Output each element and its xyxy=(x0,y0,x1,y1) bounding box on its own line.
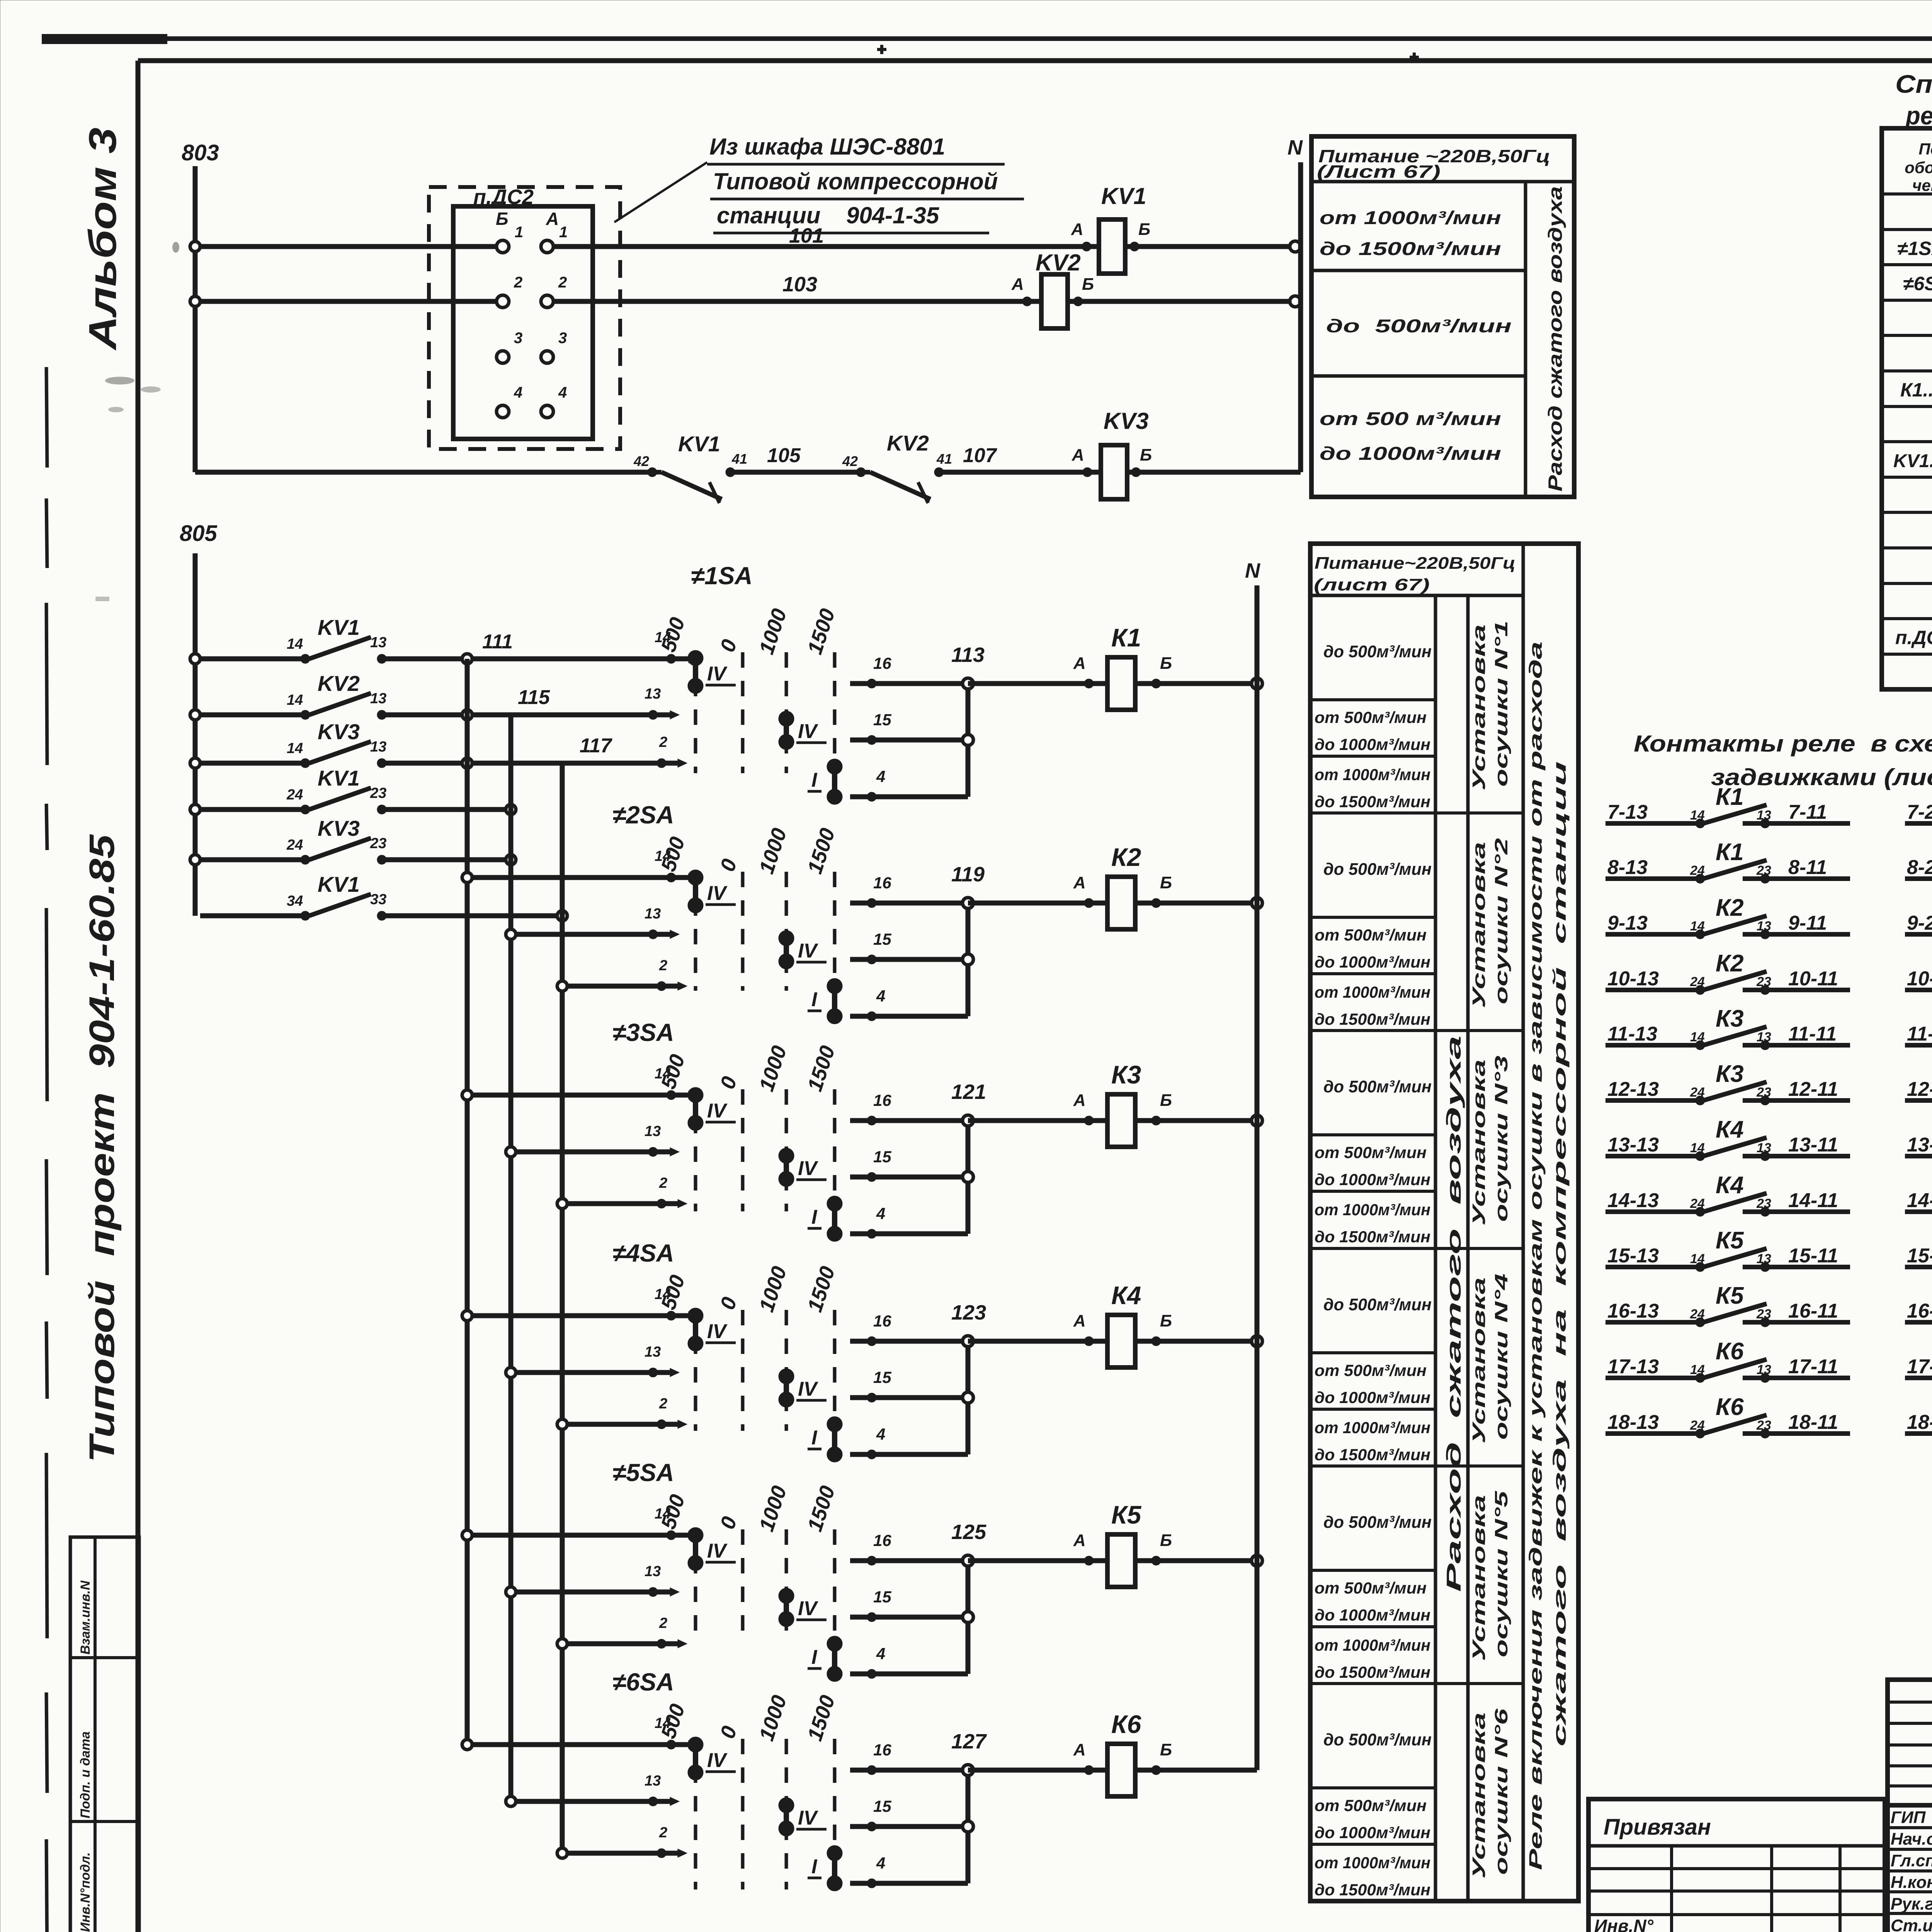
terminal A of K4 xyxy=(1073,1311,1094,1346)
table2 group 2 row lines xyxy=(1310,917,1523,1031)
svg-text:от 1000м³/мин: от 1000м³/мин xyxy=(1315,765,1430,784)
svg-text:К2: К2 xyxy=(1716,950,1744,977)
svg-text:16: 16 xyxy=(873,1312,891,1330)
svg-text:2: 2 xyxy=(659,1175,667,1191)
svg-text:Б: Б xyxy=(1160,1531,1172,1550)
svg-text:осушки N°6: осушки N°6 xyxy=(1491,1708,1511,1875)
bridge contact IV on 1000 line #5SA xyxy=(779,1588,827,1627)
bridge contact I on 1500 line #4SA xyxy=(808,1417,842,1462)
relay coil K3 xyxy=(1107,1060,1141,1147)
switch #1SA label xyxy=(691,562,753,590)
svg-text:13: 13 xyxy=(370,690,386,707)
svg-text:33: 33 xyxy=(370,891,386,908)
switch #5SA position line 1500 xyxy=(833,1529,837,1640)
wire 16 #2SA xyxy=(850,874,968,908)
svg-text:Расход сжатого воздуха: Расход сжатого воздуха xyxy=(1544,186,1566,492)
svg-text:А: А xyxy=(1073,654,1086,673)
svg-text:111: 111 xyxy=(482,631,513,653)
svg-text:14: 14 xyxy=(287,692,303,708)
svg-text:I: I xyxy=(811,988,818,1011)
contact K4 make 14-13/14-11 row xyxy=(1605,1172,1850,1216)
table2 g4 от500до1000 xyxy=(1315,1361,1430,1406)
svg-text:от 1000м³/мин: от 1000м³/мин xyxy=(1315,1201,1430,1219)
svg-text:16-13: 16-13 xyxy=(1607,1300,1659,1322)
svg-text:задвижками (лист: задвижками (лист xyxy=(1711,764,1932,790)
svg-text:IV: IV xyxy=(707,663,728,685)
svg-text:К3: К3 xyxy=(1111,1060,1141,1089)
label 1000 #2SA xyxy=(755,825,791,877)
svg-text:I: I xyxy=(811,769,818,791)
svg-text:9-11: 9-11 xyxy=(1788,912,1827,934)
switch #5SA label xyxy=(612,1459,674,1486)
spec row К1..К6 xyxy=(1900,379,1932,401)
wire 103 xyxy=(553,273,1041,301)
svg-text:7-13: 7-13 xyxy=(1607,801,1648,823)
svg-text:11-13: 11-13 xyxy=(1607,1023,1657,1045)
table2 g4 от1000до1500 xyxy=(1315,1418,1430,1464)
contact KV1 break 42-41 xyxy=(633,432,747,503)
svg-text:101: 101 xyxy=(789,224,824,247)
svg-text:24: 24 xyxy=(1690,1307,1705,1321)
label 0 #1SA xyxy=(716,637,741,655)
table2 rotated Установка осушки №1 xyxy=(1469,621,1511,791)
label 1000 #6SA xyxy=(755,1692,791,1744)
table2 g5 до500 xyxy=(1323,1513,1432,1532)
svg-text:2: 2 xyxy=(514,274,522,291)
svg-text:123: 123 xyxy=(951,1301,986,1324)
terminal A of KV2 xyxy=(1011,275,1032,306)
terminal Б of K1 xyxy=(1151,654,1172,688)
svg-text:Б: Б xyxy=(1160,1311,1172,1330)
table2 g1 от500до1000 xyxy=(1315,708,1430,753)
svg-text:от 500 м³/мин: от 500 м³/мин xyxy=(1320,409,1501,429)
relay coil K4 xyxy=(1107,1281,1141,1367)
contact K2 make 10-13/10-11 row xyxy=(1605,950,1850,995)
svg-text:Установка: Установка xyxy=(1469,1713,1489,1879)
junction bus K5 xyxy=(963,1555,973,1674)
margin stamp column xyxy=(70,1537,139,1932)
wire 103 to N xyxy=(1068,299,1295,304)
svg-text:К5: К5 xyxy=(1716,1282,1744,1309)
contact KV1 14-13 rung xyxy=(190,615,386,664)
svg-text:7-11: 7-11 xyxy=(1788,801,1827,823)
svg-text:К4: К4 xyxy=(1111,1281,1141,1310)
wire 16 #6SA xyxy=(850,1741,968,1775)
svg-text:125: 125 xyxy=(951,1520,986,1544)
table2 g1 от1000до1500 xyxy=(1315,765,1430,811)
switch #3SA position line 0 xyxy=(741,1089,745,1211)
contact K3 break 11-25/11-23 row xyxy=(1905,1004,1932,1068)
junction 803-101 xyxy=(190,241,200,252)
svg-text:24: 24 xyxy=(286,837,303,853)
svg-text:12-11: 12-11 xyxy=(1788,1078,1838,1100)
svg-text:41: 41 xyxy=(936,451,952,467)
svg-text:2: 2 xyxy=(558,274,567,291)
switch #3SA position line 1000 xyxy=(785,1089,788,1211)
switch #2SA label xyxy=(612,801,674,829)
label 500 #1SA xyxy=(656,614,689,655)
box Привязан xyxy=(1588,1799,1885,1932)
title block row Гл.спеч. xyxy=(1891,1851,1932,1870)
svg-text:15-25: 15-25 xyxy=(1907,1245,1932,1267)
terminal Б2 xyxy=(497,274,522,308)
svg-text:2: 2 xyxy=(659,734,667,750)
svg-text:15-13: 15-13 xyxy=(1607,1245,1659,1267)
svg-text:14: 14 xyxy=(287,740,303,757)
label 500 #4SA xyxy=(656,1272,689,1312)
contact K3 break 12-25/12-23 row xyxy=(1905,1059,1932,1123)
table2 g3 от500до1000 xyxy=(1315,1143,1430,1189)
svg-text:4: 4 xyxy=(558,384,567,401)
bridge contact IV on 1000 line #2SA xyxy=(779,930,827,969)
svg-text:4: 4 xyxy=(876,1854,885,1872)
wire 15 #5SA xyxy=(850,1588,968,1622)
wire 121 xyxy=(951,1080,1107,1121)
bridge contact I on 1500 line #5SA xyxy=(808,1636,842,1682)
wire 13 branch #3SA xyxy=(506,1123,679,1157)
table2 g5 от500до1000 xyxy=(1315,1579,1430,1624)
svg-text:Альбом 3: Альбом 3 xyxy=(81,128,124,351)
svg-text:Н.контр.: Н.контр. xyxy=(1891,1873,1932,1892)
svg-text:11-11: 11-11 xyxy=(1788,1023,1837,1045)
svg-text:до 1000м³/мин: до 1000м³/мин xyxy=(1315,1823,1430,1842)
svg-text:15: 15 xyxy=(873,1797,891,1815)
terminal А2 xyxy=(541,274,567,308)
svg-text:9-13: 9-13 xyxy=(1607,912,1648,934)
svg-text:Питание~220В,50Гц: Питание~220В,50Гц xyxy=(1315,554,1515,573)
label Инв.№ подпись xyxy=(1594,1916,1654,1932)
junction bus K2 xyxy=(963,898,973,1016)
wire 101 to N xyxy=(1125,244,1295,249)
table1 rotated Расход сжатого воздуха xyxy=(1544,186,1566,492)
wire 127 xyxy=(951,1730,1107,1770)
label 1500 #6SA xyxy=(803,1692,839,1744)
svg-text:103: 103 xyxy=(782,273,817,296)
svg-text:4: 4 xyxy=(876,1204,885,1223)
stamp label Инв.№ подл. xyxy=(78,1852,93,1932)
svg-text:Типовой компрессорной: Типовой компрессорной xyxy=(713,168,998,194)
terminal А4 xyxy=(541,384,567,418)
contact K5 make 15-13/15-11 row xyxy=(1605,1227,1850,1272)
svg-text:А: А xyxy=(1071,220,1083,239)
relay coil K5 xyxy=(1107,1500,1142,1587)
bridge contact I on 1500 line #2SA xyxy=(808,978,842,1024)
svg-text:от 500м³/мин: от 500м³/мин xyxy=(1315,1361,1427,1379)
svg-text:до 500м³/мин: до 500м³/мин xyxy=(1323,1730,1432,1749)
relay coil K6 xyxy=(1107,1710,1142,1796)
contact K5 break 15-25/15-23 row xyxy=(1905,1226,1932,1289)
svg-text:KV1: KV1 xyxy=(318,766,360,790)
svg-text:от 500м³/мин: от 500м³/мин xyxy=(1315,926,1427,944)
svg-text:16: 16 xyxy=(873,1531,891,1549)
switch #3SA position line 500 xyxy=(694,1089,697,1211)
terminal Б of K5 xyxy=(1151,1531,1172,1565)
svg-text:17-25: 17-25 xyxy=(1907,1355,1932,1378)
svg-text:16: 16 xyxy=(873,1091,891,1109)
svg-text:до 500м³/мин: до 500м³/мин xyxy=(1323,1295,1432,1314)
svg-text:К5: К5 xyxy=(1111,1500,1142,1529)
svg-text:10-11: 10-11 xyxy=(1788,968,1838,990)
contact K2 break 9-25/9-23 row xyxy=(1905,893,1932,957)
svg-text:14-13: 14-13 xyxy=(1607,1189,1659,1212)
table2 g6 до500 xyxy=(1323,1730,1432,1749)
label 0 #4SA xyxy=(716,1294,741,1313)
relay coil KV2 xyxy=(1036,250,1081,328)
spec row 6SA xyxy=(1903,272,1932,295)
svg-text:14: 14 xyxy=(655,1506,671,1522)
table Питание top box xyxy=(1311,136,1574,497)
svg-text:2: 2 xyxy=(659,1825,667,1841)
table1 row от1000 до1500 xyxy=(1320,208,1501,259)
svg-text:8-11: 8-11 xyxy=(1788,856,1827,879)
spec row KV1..К3 xyxy=(1893,450,1932,471)
wire 14 branch #5SA xyxy=(462,1506,698,1540)
svg-text:12-25: 12-25 xyxy=(1907,1078,1932,1100)
svg-text:≠1SA...: ≠1SA... xyxy=(1897,238,1932,259)
stamp label Взам.инв.№ xyxy=(78,1580,93,1655)
table1 row до500 xyxy=(1326,316,1512,337)
table2 rotated Расход сжатого воздуха xyxy=(1443,1036,1465,1592)
table2 g3 до500 xyxy=(1323,1077,1432,1096)
contact K4 break 14-25/14-23 row xyxy=(1905,1170,1932,1234)
svg-text:15: 15 xyxy=(873,930,891,948)
node N top circle 101 xyxy=(1290,241,1301,252)
svg-text:Б: Б xyxy=(1138,220,1150,239)
svg-text:Расход сжатого воздуха: Расход сжатого воздуха xyxy=(1443,1036,1465,1592)
svg-text:до 1000м³/мин: до 1000м³/мин xyxy=(1320,444,1501,464)
switch #1SA position line 1500 xyxy=(833,652,837,773)
spec row п.ДС2 xyxy=(1895,626,1932,649)
svg-text:1: 1 xyxy=(515,224,523,241)
label 1500 #4SA xyxy=(803,1264,839,1315)
wire 16 #5SA xyxy=(850,1531,968,1565)
svg-text:≠6SA: ≠6SA xyxy=(612,1668,674,1696)
terminal А1 xyxy=(541,224,568,253)
svg-text:А: А xyxy=(1073,1311,1086,1330)
title block row Ст.инж. xyxy=(1891,1916,1932,1932)
svg-text:113: 113 xyxy=(951,643,985,667)
svg-text:23: 23 xyxy=(370,835,386,852)
spec header Поз xyxy=(1905,140,1932,194)
svg-text:13: 13 xyxy=(645,1563,661,1580)
svg-text:до 1500м³/мин: до 1500м³/мин xyxy=(1315,1228,1430,1246)
svg-text:от 500м³/мин: от 500м³/мин xyxy=(1315,708,1427,726)
svg-text:≠2SA: ≠2SA xyxy=(612,801,674,829)
svg-text:IV: IV xyxy=(707,1540,728,1562)
svg-text:осушки N°3: осушки N°3 xyxy=(1491,1055,1511,1222)
svg-text:IV: IV xyxy=(798,1597,818,1620)
svg-text:7-25: 7-25 xyxy=(1907,801,1932,823)
bus N lower xyxy=(1245,559,1260,1770)
svg-text:15: 15 xyxy=(873,711,891,729)
contact K6 make 18-13/18-11 row xyxy=(1605,1394,1850,1438)
terminal A of K5 xyxy=(1073,1531,1094,1565)
svg-text:1: 1 xyxy=(559,224,568,241)
contact K3 make 11-13/11-11 row xyxy=(1605,1005,1850,1050)
wire 2 branch #6SA xyxy=(557,1825,687,1858)
terminal Б of K4 xyxy=(1151,1311,1172,1346)
switch #2SA position line 1500 xyxy=(833,872,837,991)
contact KV1 34-33 rung xyxy=(200,872,386,920)
wire 16 #4SA xyxy=(850,1312,968,1346)
bus N top xyxy=(1287,136,1303,472)
svg-text:14: 14 xyxy=(1690,919,1705,934)
switch #3SA position line 1500 xyxy=(833,1089,837,1211)
table2 g1 до500 xyxy=(1323,642,1432,661)
bridge contact IV on 500 line #1SA xyxy=(688,650,736,694)
svg-text:17-11: 17-11 xyxy=(1788,1355,1838,1378)
relay coil K2 xyxy=(1107,843,1141,929)
svg-text:11-25: 11-25 xyxy=(1907,1023,1932,1045)
svg-text:≠1SA: ≠1SA xyxy=(691,562,753,590)
svg-text:I: I xyxy=(811,1427,818,1449)
svg-text:2: 2 xyxy=(659,1615,667,1631)
wire K4 to N xyxy=(1135,1339,1257,1344)
wire 14 branch #2SA xyxy=(462,848,698,883)
node N circle K1 xyxy=(1252,678,1262,689)
svg-text:127: 127 xyxy=(951,1730,987,1753)
device п.ДС2 inner box xyxy=(453,206,593,439)
wire 4 #2SA xyxy=(850,987,968,1021)
svg-text:А: А xyxy=(1073,873,1086,892)
svg-text:К4: К4 xyxy=(1716,1116,1744,1143)
terminal A of K6 xyxy=(1073,1740,1094,1775)
contact K4 break 13-25/13-23 row xyxy=(1905,1115,1932,1179)
contact KV2 14-13 rung xyxy=(190,671,386,720)
svg-text:15: 15 xyxy=(873,1148,891,1166)
svg-text:Б: Б xyxy=(1160,654,1172,673)
table2 g4 до500 xyxy=(1323,1295,1432,1314)
svg-text:24: 24 xyxy=(286,787,303,803)
registration mark 2 xyxy=(1410,53,1419,62)
svg-text:3: 3 xyxy=(558,330,567,347)
wire 15 #3SA xyxy=(850,1148,968,1182)
svg-text:до 1500м³/мин: до 1500м³/мин xyxy=(1315,793,1430,811)
svg-text:сжатого воздуха на компресс: сжатого воздуха на компрессорной станции xyxy=(1549,761,1570,1747)
title block row Нач.отд. xyxy=(1891,1830,1932,1849)
svg-text:Б: Б xyxy=(1082,275,1094,294)
wire rung KV3 24-23 to bus 115 xyxy=(382,855,516,865)
svg-text:А: А xyxy=(1073,1091,1086,1110)
svg-text:до 1000м³/мин: до 1000м³/мин xyxy=(1315,1170,1430,1189)
svg-text:К4: К4 xyxy=(1716,1172,1744,1199)
switch #2SA position line 1000 xyxy=(785,872,788,991)
svg-text:Инв.N°подл.: Инв.N°подл. xyxy=(78,1852,93,1932)
contact K1 break 7-25/7-23 row xyxy=(1905,782,1932,846)
bridge contact I on 1500 line #3SA xyxy=(808,1196,842,1242)
label 0 #3SA xyxy=(716,1074,741,1092)
table2 group 5 row lines xyxy=(1310,1570,1523,1684)
svg-text:IV: IV xyxy=(798,1807,818,1829)
svg-text:Поз.: Поз. xyxy=(1919,140,1932,158)
svg-text:105: 105 xyxy=(767,444,801,467)
wire 125 xyxy=(951,1520,1107,1561)
wire 101 left segment xyxy=(200,244,497,249)
switch #4SA label xyxy=(612,1239,674,1267)
contact K4 make 13-13/13-11 row xyxy=(1605,1116,1850,1161)
label column Б xyxy=(496,209,509,229)
svg-text:от 1000м³/мин: от 1000м³/мин xyxy=(1315,983,1430,1001)
contact KV1 24-23 rung xyxy=(190,766,386,815)
svg-text:KV1: KV1 xyxy=(318,872,360,896)
terminal Б of K6 xyxy=(1151,1740,1172,1775)
bridge contact IV on 1000 line #1SA xyxy=(779,711,827,750)
svg-text:13: 13 xyxy=(645,686,661,702)
svg-text:IV: IV xyxy=(707,882,728,905)
svg-text:2: 2 xyxy=(659,957,667,974)
svg-text:от 500м³/мин: от 500м³/мин xyxy=(1315,1143,1427,1162)
terminal A of K1 xyxy=(1073,654,1094,688)
svg-text:станции 904-1-35: станции 904-1-35 xyxy=(717,202,940,228)
svg-text:18-11: 18-11 xyxy=(1788,1411,1838,1434)
wire 16 #3SA xyxy=(850,1091,968,1125)
wire 14 branch #4SA xyxy=(462,1286,698,1321)
bridge contact I on 1500 line #1SA xyxy=(808,759,842,804)
svg-text:Установка: Установка xyxy=(1469,624,1489,791)
table2 rotated Установка осушки №4 xyxy=(1469,1274,1511,1444)
svg-text:Б: Б xyxy=(1160,1740,1172,1759)
svg-text:К6: К6 xyxy=(1716,1394,1744,1420)
wire 2 branch #4SA xyxy=(557,1396,687,1429)
table2 g2 от1000до1500 xyxy=(1315,983,1430,1028)
switch #4SA position line 1500 xyxy=(833,1310,837,1431)
svg-text:Из шкафа ШЭС-8801: Из шкафа ШЭС-8801 xyxy=(709,134,945,160)
wire 4 #5SA xyxy=(850,1645,968,1679)
svg-text:до 1500м³/мин: до 1500м³/мин xyxy=(1315,1881,1430,1899)
svg-text:А: А xyxy=(1011,275,1024,294)
svg-text:IV: IV xyxy=(798,720,818,743)
terminal Б1 xyxy=(497,224,523,253)
svg-text:4: 4 xyxy=(876,987,885,1005)
table2 g6 от1000до1500 xyxy=(1315,1854,1430,1899)
wire rung KV1 34-33 to bus 117 xyxy=(382,911,567,921)
switch #5SA position line 500 xyxy=(694,1529,697,1640)
wire K6 to N xyxy=(1135,1768,1257,1773)
label 1500 #1SA xyxy=(803,606,839,657)
svg-text:≠4SA: ≠4SA xyxy=(612,1239,674,1267)
table2 g3 от1000до1500 xyxy=(1315,1201,1430,1246)
svg-text:осушки N°4: осушки N°4 xyxy=(1491,1274,1511,1440)
svg-text:Б: Б xyxy=(1160,873,1172,892)
svg-text:3: 3 xyxy=(514,330,522,347)
svg-text:13: 13 xyxy=(645,906,661,922)
wire 15 #4SA xyxy=(850,1368,968,1402)
node 803 label xyxy=(182,140,219,165)
svg-text:24: 24 xyxy=(1690,1418,1705,1433)
diagram section line 1 xyxy=(0,0,0,0)
svg-text:14: 14 xyxy=(655,1066,671,1082)
svg-text:ГИП: ГИП xyxy=(1891,1808,1926,1827)
svg-text:23: 23 xyxy=(370,785,386,801)
svg-text:12-13: 12-13 xyxy=(1607,1078,1659,1100)
svg-text:KV2: KV2 xyxy=(887,431,929,455)
wire 13 branch #4SA xyxy=(506,1344,679,1378)
svg-text:IV: IV xyxy=(707,1320,728,1343)
table2 rotated Реле включения line1 xyxy=(1526,641,1546,1870)
title block upper rows xyxy=(1888,1702,1932,1786)
svg-text:до 500м³/мин: до 500м³/мин xyxy=(1323,1077,1432,1096)
stamp label Подп. и дата xyxy=(78,1731,93,1818)
label 0 #6SA xyxy=(716,1723,741,1742)
leader line to ШЭС note xyxy=(614,162,707,222)
table Питание 2 box xyxy=(1310,544,1578,1901)
scan smudges xyxy=(96,242,179,601)
wire 107 xyxy=(939,444,1101,472)
wire 14 branch #3SA xyxy=(462,1066,698,1100)
terminal Б of KV1 xyxy=(1130,220,1150,251)
bridge contact I on 1500 line #6SA xyxy=(808,1845,842,1891)
wire 115 xyxy=(382,686,679,720)
